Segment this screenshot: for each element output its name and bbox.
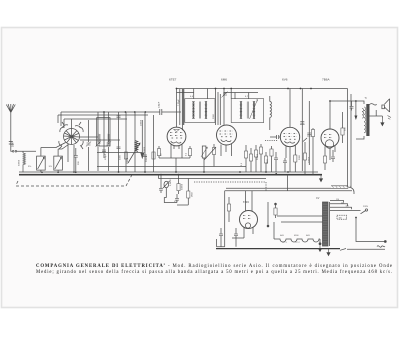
mains taps (330, 201, 361, 211)
cap C8 (249, 148, 252, 172)
wires switch down (68, 144, 74, 171)
B+ drop wire (287, 175, 289, 191)
tube V1 converter (167, 89, 186, 146)
resistor R10 (254, 145, 257, 172)
RF coil box L5 (97, 118, 110, 146)
resistor R22 (270, 146, 273, 172)
main bus wires (19, 171, 318, 173)
padder trimmer box (201, 146, 207, 172)
cap C15 on speaker line (350, 101, 354, 111)
svg-text:10000: 10000 (309, 156, 311, 163)
resistor R16 (323, 156, 326, 170)
mains wiring (356, 218, 385, 242)
long wires left side of output box (302, 89, 309, 172)
series cap 140pF on bus (160, 109, 162, 115)
wire diag (204, 147, 216, 160)
svg-text:5%: 5% (28, 166, 31, 168)
tap box (337, 215, 347, 219)
trimmer column 2 (95, 118, 100, 171)
wire trimmers to switch (41, 143, 69, 150)
svg-text:3000: 3000 (213, 113, 215, 119)
tube V3 pins (286, 145, 295, 172)
switch arrow pointer (128, 143, 140, 163)
upper RF verticals with caps (102, 112, 106, 158)
ground marks (388, 116, 392, 120)
rect pins (232, 228, 253, 239)
svg-text:COMPAGNIA GENERALE DI ELETTRIC: COMPAGNIA GENERALE DI ELETTRICITA’ - Mod… (36, 264, 392, 269)
svg-text:CV: CV (316, 197, 320, 200)
wires top right of switch going to coils (98, 112, 104, 118)
resistor R11 (264, 152, 267, 172)
trimmer box TB1 (37, 148, 46, 173)
capacitor antenna series (9, 142, 13, 145)
tuning gang section 2 (216, 89, 221, 126)
trimmer column 1 (86, 120, 91, 171)
wire lower link (97, 166, 246, 168)
cap C14 (164, 194, 179, 203)
svg-text:7B6A: 7B6A (322, 78, 331, 82)
wire mid link (97, 152, 142, 154)
wire switch right (80, 137, 121, 140)
output stage box (348, 89, 352, 188)
coil can 1 (osc/ant coils) (185, 89, 215, 123)
svg-text:6TR4: 6TR4 (243, 201, 250, 204)
mains flex (340, 249, 385, 251)
svg-text:1MΩ: 1MΩ (192, 192, 194, 197)
trimmer box TB2 (54, 149, 63, 172)
svg-text:6M6: 6M6 (221, 78, 227, 82)
field coil box (274, 222, 321, 245)
svg-text:Tr: Tr (365, 97, 367, 100)
svg-text:10000: 10000 (127, 157, 129, 164)
ground arrow transformer (327, 249, 330, 256)
cathode net wire (159, 152, 190, 172)
svg-text:140pF: 140pF (158, 101, 160, 108)
cap C11 electrolytic (307, 133, 312, 136)
trimmer column 3 (106, 112, 111, 171)
chassis dashed line (16, 175, 132, 186)
tube V1 pins (171, 145, 182, 153)
tube V4 output (321, 101, 356, 148)
svg-text:160: 160 (339, 218, 342, 220)
coil can 2 (IF transformer) (231, 93, 264, 123)
tube V3 detector (280, 89, 299, 147)
svg-text:220V: 220V (363, 206, 369, 208)
transformer bottom hatched joint (331, 186, 348, 189)
resistor R20 (177, 179, 190, 206)
detector coil L4 (270, 96, 272, 130)
power transformer T4 (323, 202, 330, 246)
svg-text:4kΩ: 4kΩ (280, 235, 284, 237)
cap C18 under output tube (331, 150, 335, 162)
ground bus arrow (319, 175, 322, 182)
wire to input coil (11, 150, 36, 153)
wire top can2 (177, 89, 259, 126)
svg-text:100pF: 100pF (105, 153, 107, 160)
AVC arrow (141, 120, 144, 158)
dashed feed wire (194, 182, 266, 191)
resistor R13 (303, 138, 307, 175)
resistor R19 (177, 175, 180, 194)
tube V2 pins (221, 144, 232, 157)
svg-text:50000: 50000 (257, 153, 259, 160)
resistor R23 (212, 144, 215, 167)
resistor R9 (244, 145, 247, 172)
resistor R21 (259, 144, 262, 172)
svg-text:140: 140 (346, 206, 349, 208)
mains switch (361, 209, 368, 214)
wires to transformer (277, 216, 326, 222)
svg-text:0,5MΩ: 0,5MΩ (170, 179, 172, 186)
cap C17 (283, 158, 287, 172)
power unit box (217, 188, 353, 246)
svg-text:50000: 50000 (146, 155, 148, 162)
cap C5 (74, 148, 78, 172)
svg-text:10000: 10000 (144, 146, 146, 153)
B+ feed (267, 202, 269, 227)
speaker ground (381, 119, 384, 126)
coupling cap C16 (265, 135, 281, 141)
ground arrow PSU (318, 245, 321, 252)
cap C9 (274, 152, 278, 172)
volume pot (163, 181, 170, 198)
cap C10 electrolytic (300, 122, 305, 125)
output transformer T3 (355, 101, 370, 139)
trimmer mid (222, 91, 228, 97)
resistor R12 (294, 155, 297, 172)
switch bus wires nested (58, 112, 160, 119)
tube V4 pins (325, 146, 335, 160)
svg-text:6TE7: 6TE7 (169, 78, 177, 82)
lower mid cluster (159, 175, 267, 179)
svg-text:5000: 5000 (299, 154, 301, 160)
svg-text:7:30pF: 7:30pF (178, 99, 180, 106)
wire antenna down (10, 113, 12, 151)
resistor R6 (157, 146, 160, 158)
rectifier tube V5 (240, 191, 258, 229)
svg-text:Medie; girando nel senso della: Medie; girando nel senso della freccia s… (36, 270, 392, 275)
antenna (6, 104, 15, 113)
svg-text:6V6: 6V6 (282, 78, 288, 82)
resistor R14 (311, 128, 314, 175)
cap C13 electrolytic (234, 228, 238, 247)
tiny labels (169, 78, 331, 82)
svg-text:5000: 5000 (120, 154, 122, 160)
resistor R18 (274, 203, 277, 218)
svg-text:110: 110 (336, 199, 339, 201)
tube V2 IF amp (217, 125, 237, 145)
svg-text:4kΩ: 4kΩ (306, 235, 310, 237)
svg-text:20000: 20000 (141, 119, 143, 126)
resistor R7 (188, 146, 191, 158)
svg-text:50000: 50000 (19, 159, 21, 166)
cap C12 electrolytic (219, 228, 223, 247)
svg-text:30000: 30000 (136, 143, 138, 150)
svg-text:125: 125 (341, 202, 344, 204)
oscillator coil L3 (135, 141, 138, 152)
tuning gang section 1 (182, 89, 184, 125)
svg-text:1MΩ: 1MΩ (267, 159, 269, 164)
svg-text:50pF: 50pF (12, 141, 15, 147)
resistor R17 (227, 197, 230, 222)
antenna terminals (12, 151, 14, 153)
svg-text:50000: 50000 (182, 183, 184, 190)
band switch S1 (59, 119, 83, 149)
coil L1 antenna coil (23, 153, 25, 172)
svg-text:5%: 5% (49, 166, 52, 168)
top long wire (177, 88, 348, 90)
speaker LS (370, 99, 390, 119)
resistor R15 (341, 112, 344, 143)
ground arrow speaker line (354, 100, 357, 120)
